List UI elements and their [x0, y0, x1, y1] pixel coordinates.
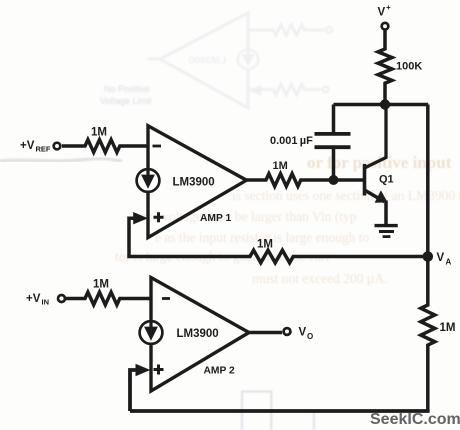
svg-text:SeekIC.com: SeekIC.com [370, 411, 460, 428]
svg-text:+: + [386, 3, 391, 12]
svg-text:No Positive: No Positive [104, 84, 150, 94]
svg-text:IN: IN [42, 298, 50, 307]
svg-text:+V: +V [26, 293, 41, 305]
svg-text:V: V [299, 327, 307, 339]
svg-text:V: V [437, 252, 445, 264]
svg-text:LM3900: LM3900 [188, 56, 226, 67]
svg-text:1M: 1M [93, 279, 109, 291]
svg-text:O: O [307, 332, 313, 341]
svg-text:must not exceed 200 µA.: must not exceed 200 µA. [252, 271, 388, 286]
svg-text:A: A [446, 258, 452, 267]
svg-text:1M: 1M [91, 127, 107, 139]
svg-text:LM3900: LM3900 [173, 177, 215, 189]
svg-text:1M: 1M [440, 322, 456, 334]
svg-text:+V: +V [20, 140, 35, 152]
svg-text:V: V [378, 7, 386, 19]
svg-text:is section uses one section of: is section uses one section of an LM3900… [232, 188, 460, 203]
svg-text:Q1: Q1 [379, 174, 394, 186]
svg-text:1M: 1M [257, 239, 273, 251]
svg-text:AMP 2: AMP 2 [204, 366, 236, 377]
svg-text:REF: REF [36, 145, 51, 154]
svg-text:1M: 1M [273, 160, 288, 172]
svg-text:Voltage Limit: Voltage Limit [100, 96, 152, 106]
svg-text:0.001 µF: 0.001 µF [270, 135, 313, 147]
svg-text:LM3900: LM3900 [177, 328, 219, 340]
svg-text:AMP 1: AMP 1 [200, 213, 232, 224]
svg-text:100K: 100K [396, 61, 422, 73]
